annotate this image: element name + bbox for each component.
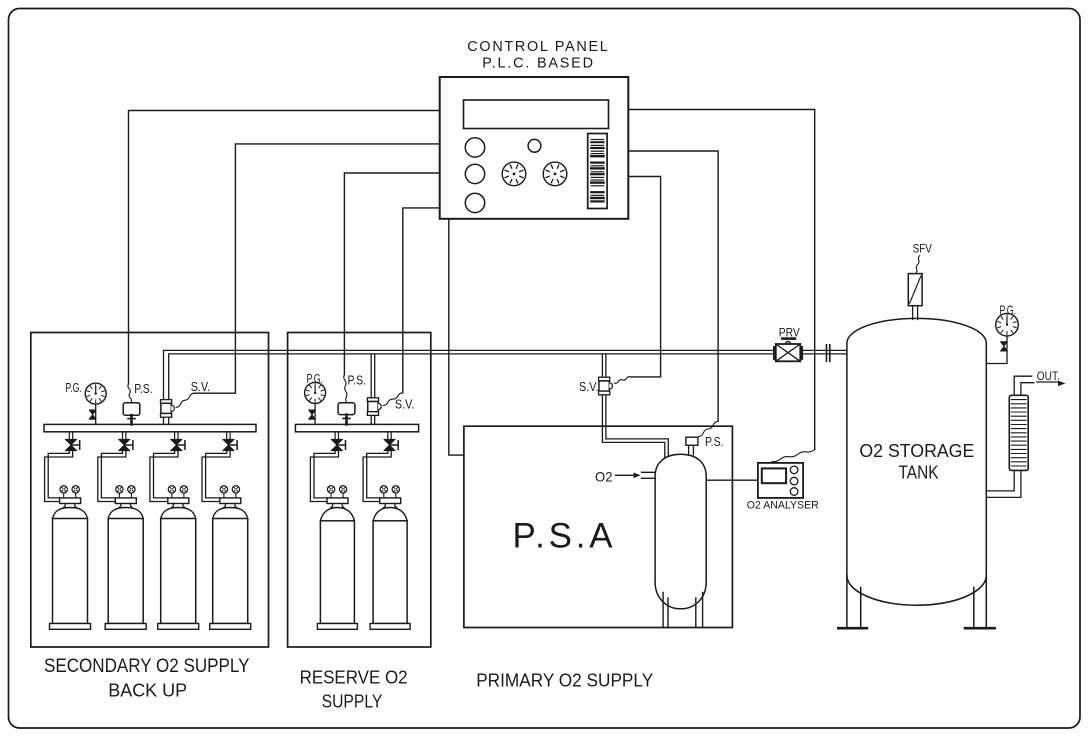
svg-text:O2 ANALYSER: O2 ANALYSER [747, 499, 819, 511]
valve stub [335, 432, 338, 439]
O2 analyser [758, 463, 803, 498]
cylinder shoulder [373, 508, 407, 521]
cylinder base [50, 624, 91, 630]
wire panel-left to reserve P.S. [344, 173, 439, 375]
wire panel-right to primary S.V. [628, 177, 660, 377]
cylinder base [105, 624, 146, 630]
pipe inside PSA to vessel [602, 426, 668, 458]
panel display [464, 100, 609, 129]
O2 inlet arrow [616, 474, 634, 476]
cylinder shoulder [161, 508, 196, 519]
svg-text:P.S.: P.S. [705, 435, 724, 449]
vessel legs [663, 593, 703, 628]
svg-text:S.V.: S.V. [191, 380, 211, 394]
cylinder gauge right [183, 493, 185, 498]
wire panel-left to secondary P.S. [129, 111, 440, 385]
vaporizer bottom pipe [986, 470, 1021, 497]
cylinder gauge right [75, 493, 77, 498]
svg-text:P.S.A: P.S.A [513, 517, 614, 556]
svg-text:P.S.: P.S. [134, 382, 153, 396]
cylinder valve block [60, 498, 81, 504]
secondary P.S. leader [128, 384, 132, 403]
PRV valve [774, 339, 802, 362]
wire panel-left to secondary S.V. [194, 144, 440, 393]
cylinder body [161, 519, 196, 624]
panel dial 2 [543, 162, 567, 186]
reserve S.V. leader [383, 393, 403, 406]
secondary pipe to cylinder 3 [154, 451, 175, 498]
manifold valve [65, 439, 77, 450]
manifold valve [223, 439, 235, 450]
panel indicator lamp [528, 139, 541, 152]
vessel inlet stub [642, 472, 656, 478]
cylinder shoulder [53, 508, 88, 519]
vaporizer top pipe [1014, 376, 1034, 395]
cylinder body [53, 519, 88, 624]
svg-text:SFV: SFV [913, 241, 933, 255]
SFV leader [916, 256, 920, 274]
reserve S.V. solenoid valve [367, 398, 378, 402]
PSA unit box [464, 426, 733, 627]
vessel outlet line [706, 479, 758, 481]
cylinder valve block [380, 498, 401, 504]
secondary manifold [44, 424, 256, 431]
control panel U1 [440, 77, 629, 219]
cylinder body [213, 519, 248, 624]
svg-text:PRIMARY O2 SUPPLY: PRIMARY O2 SUPPLY [476, 669, 653, 690]
pipe flange at tank [827, 345, 830, 361]
tank bottom dome [847, 576, 986, 606]
valve stub [388, 432, 391, 439]
cylinder gauge right [395, 493, 397, 498]
manifold valve [331, 439, 343, 450]
reserve P.S. leader [344, 375, 347, 403]
secondary pipe to cylinder 2 [101, 451, 122, 498]
primary S.V. drop pipe [602, 354, 606, 426]
manifold valve [384, 439, 395, 450]
svg-text:SECONDARY O2 SUPPLY: SECONDARY O2 SUPPLY [44, 656, 250, 677]
cylinder base [370, 624, 410, 630]
cylinder base [210, 624, 251, 630]
cylinder neck [331, 504, 344, 508]
vessel P.S. leader [699, 421, 719, 436]
reserve pipe to cylinder 1 [314, 451, 335, 498]
main O2 pipe [164, 350, 847, 424]
O2 vessel [655, 454, 706, 609]
manifold valve [119, 439, 130, 450]
manifold valve [171, 439, 183, 450]
cylinder gauge right [342, 493, 344, 498]
cylinder gauge left [118, 493, 120, 498]
cylinder gauge left [383, 493, 385, 498]
svg-text:O2: O2 [595, 469, 613, 485]
reserve manifold [295, 424, 418, 431]
cylinder valve block [220, 498, 241, 504]
cylinder neck [119, 504, 132, 508]
cylinder gauge right [235, 493, 237, 498]
svg-text:P.L.C. BASED: P.L.C. BASED [482, 55, 593, 71]
svg-text:S.V.: S.V. [395, 397, 415, 411]
vaporizer [1009, 395, 1028, 470]
primary S.V. solenoid valve [599, 377, 610, 381]
wire panel-left to reserve S.V. [403, 208, 440, 393]
wire panel-bottom to PSA unit [449, 219, 464, 455]
cylinder body [108, 519, 143, 624]
cylinder base [317, 624, 357, 630]
valve stub [123, 432, 126, 439]
panel button 3 [465, 193, 484, 212]
reserve S.V. riser pipe [371, 354, 375, 425]
cylinder gauge left [223, 493, 225, 498]
secondary P.G. gauge [85, 383, 106, 424]
tank legs right [974, 576, 987, 628]
reserve pipe to cylinder 2 [367, 451, 388, 498]
secondary S.V. leader [176, 393, 194, 407]
svg-text:RESERVE O2: RESERVE O2 [300, 667, 408, 688]
secondary S.V. solenoid valve [161, 400, 172, 404]
O2 storage tank shell [847, 318, 986, 575]
cylinder neck [224, 504, 237, 508]
svg-text:PRV: PRV [779, 325, 801, 339]
vessel neck [689, 445, 694, 455]
svg-text:TANK: TANK [899, 462, 939, 483]
svg-text:CONTROL PANEL: CONTROL PANEL [467, 39, 608, 55]
O2 analyser leader [772, 450, 815, 462]
reserve supply enclosure [288, 333, 431, 648]
cylinder body [373, 521, 407, 624]
vessel P.S. switch [686, 437, 698, 445]
svg-text:P.G.: P.G. [65, 381, 82, 395]
cylinder base [158, 624, 199, 630]
svg-text:BACK UP: BACK UP [108, 680, 187, 701]
secondary pipe to cylinder 1 [48, 451, 69, 498]
cylinder gauge right [130, 493, 132, 498]
cylinder neck [172, 504, 185, 508]
secondary pipe to cylinder 4 [206, 451, 227, 498]
secondary supply enclosure [31, 333, 269, 648]
cylinder shoulder [213, 508, 248, 519]
tank P.G. gauge [986, 313, 1018, 363]
cylinder neck [64, 504, 77, 508]
valve stub [227, 432, 230, 439]
wire panel-right to vessel P.S. [628, 151, 718, 421]
svg-text:P.S.: P.S. [348, 373, 367, 387]
cylinder valve block [115, 498, 136, 504]
svg-text:S.V.: S.V. [579, 380, 599, 394]
tank legs left [847, 576, 861, 628]
panel dial 1 [502, 162, 526, 186]
wire panel-right to O2 analyser [628, 110, 814, 450]
cylinder gauge left [63, 493, 65, 498]
panel button 1 [465, 138, 484, 157]
cylinder neck [384, 504, 397, 508]
reserve P.G. gauge [305, 382, 326, 424]
cylinder body [320, 521, 354, 624]
cylinder shoulder [320, 508, 354, 521]
panel button 2 [465, 164, 484, 183]
cylinder gauge left [171, 493, 173, 498]
svg-text:OUT.: OUT. [1037, 369, 1060, 383]
primary S.V. leader [614, 377, 630, 384]
secondary P.S. pressure switch [123, 403, 140, 425]
SFV safety valve [908, 274, 922, 320]
cylinder gauge left [330, 493, 332, 498]
panel barcode display [588, 134, 607, 209]
svg-text:SUPPLY: SUPPLY [322, 691, 383, 712]
cylinder shoulder [108, 508, 143, 519]
valve stub [175, 432, 178, 439]
reserve P.S. pressure switch [338, 403, 355, 425]
cylinder valve block [327, 498, 348, 504]
valve stub [69, 432, 72, 439]
svg-text:O2 STORAGE: O2 STORAGE [859, 440, 974, 461]
cylinder valve block [168, 498, 189, 504]
